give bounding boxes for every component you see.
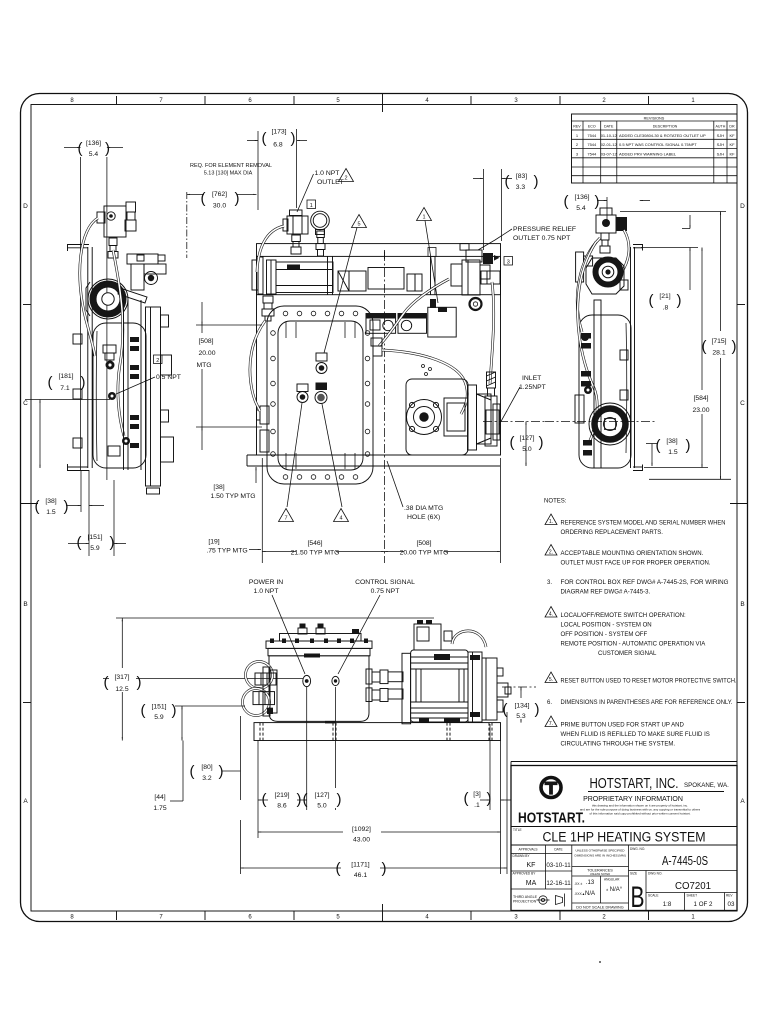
- dimension [151] 5.9 front view: [141, 700, 246, 741]
- svg-text:TITLE: TITLE: [513, 828, 522, 832]
- svg-text:5.4: 5.4: [576, 205, 586, 212]
- hotstart logo: [541, 778, 561, 798]
- svg-text:THIRD ANGLE: THIRD ANGLE: [513, 895, 538, 899]
- svg-text:): ): [337, 791, 342, 808]
- third angle projection symbol: [537, 894, 565, 907]
- svg-text:[508]: [508]: [198, 338, 213, 345]
- dimension [219] 8.6: [258, 788, 307, 810]
- dimension [19] .75 TYP MTG center: [206, 539, 261, 555]
- control box body: [269, 656, 369, 722]
- svg-text:01-10-12: 01-10-12: [601, 133, 618, 138]
- svg-text:DIMENSIONS ARE IN INCHES [MM]: DIMENSIONS ARE IN INCHES [MM]: [575, 854, 626, 858]
- svg-text:): ): [686, 437, 691, 454]
- svg-text:0.75 NPT: 0.75 NPT: [371, 588, 400, 595]
- svg-text:WHEN FLUID IS REFILLED TO MAKE: WHEN FLUID IS REFILLED TO MAKE SURE FLUI…: [561, 732, 710, 738]
- svg-text:A: A: [740, 798, 745, 805]
- svg-text:SPOKANE, WA.: SPOKANE, WA.: [684, 782, 729, 789]
- svg-text:KF: KF: [729, 151, 735, 156]
- svg-text:7544: 7544: [587, 151, 597, 156]
- dimension [38] 1.5 left view: [35, 470, 115, 556]
- svg-text:PROPRIETARY INFORMATION: PROPRIETARY INFORMATION: [583, 796, 683, 803]
- svg-text:KF: KF: [729, 142, 735, 147]
- svg-text:1.75: 1.75: [153, 805, 166, 812]
- box port power: [303, 675, 311, 686]
- leader balloon 5: [324, 228, 357, 354]
- sheet outer border: [21, 94, 748, 922]
- svg-text:3.: 3.: [547, 580, 552, 586]
- balloon triangle 5: [352, 215, 367, 228]
- balloon triangle 4: [334, 509, 349, 522]
- svg-text:PROJECTION: PROJECTION: [513, 900, 537, 904]
- outlet fitting assembly top: [283, 210, 329, 256]
- svg-text:[173]: [173]: [271, 129, 286, 136]
- svg-text:.75 TYP MTG: .75 TYP MTG: [206, 548, 247, 555]
- right view ports: [581, 333, 589, 341]
- note 7 balloon: [545, 716, 557, 727]
- svg-text:UNLESS NOTED: UNLESS NOTED: [590, 872, 610, 876]
- dimension [584] 23.00 right view: [644, 248, 710, 468]
- svg-text:DATE: DATE: [554, 848, 562, 852]
- dimension [151] 5.9 left view: [68, 534, 126, 552]
- svg-text:POWER IN: POWER IN: [249, 579, 283, 586]
- pressure relief fitting assembly: [451, 244, 500, 295]
- lid bolts: [270, 639, 368, 658]
- svg-text:PRIME BUTTON USED FOR START UP: PRIME BUTTON USED FOR START UP AND: [561, 723, 685, 729]
- svg-text:): ): [595, 193, 600, 210]
- motor body front view: [411, 650, 480, 722]
- svg-text:5.4: 5.4: [89, 151, 99, 158]
- svg-text:NOTES:: NOTES:: [544, 499, 567, 505]
- svg-text:20.00 TYP MTG: 20.00 TYP MTG: [400, 550, 449, 557]
- left hose loop 1: [246, 662, 273, 689]
- svg-text:1: 1: [310, 203, 313, 209]
- top valve assembly left view: [97, 202, 136, 258]
- plate right port: [371, 338, 382, 356]
- hose from outlet fitting: [257, 226, 284, 272]
- mtg hole extension lines bottom: [261, 458, 263, 563]
- svg-text:[1171]: [1171]: [351, 862, 370, 869]
- svg-text:INLET: INLET: [522, 375, 541, 382]
- svg-text:): ): [732, 338, 737, 355]
- svg-text:): ): [534, 173, 539, 190]
- svg-text:5: 5: [357, 222, 360, 228]
- motor mount arm left view: [118, 254, 166, 303]
- left column couplers center view: [257, 296, 275, 452]
- svg-text:REMOTE POSITION - AUTOMATIC OP: REMOTE POSITION - AUTOMATIC OPERATION VI…: [561, 642, 707, 648]
- svg-text:(: (: [262, 130, 267, 147]
- plate port fitting 1 (prime): [316, 353, 327, 374]
- dimension [134] 5.3: [502, 687, 540, 723]
- svg-text:5.: 5.: [549, 677, 553, 683]
- svg-text:7.1: 7.1: [60, 385, 70, 392]
- svg-text:TOLERANCES: TOLERANCES: [587, 869, 613, 873]
- svg-text:REVISIONS: REVISIONS: [644, 117, 665, 121]
- svg-text:): ): [297, 791, 302, 808]
- dimension [80] 3.2 front view: [190, 716, 241, 800]
- control box lid fittings: [298, 624, 359, 635]
- svg-text:[508]: [508]: [416, 540, 431, 547]
- zone tick marks top: [117, 94, 649, 113]
- svg-text:DESCRIPTION: DESCRIPTION: [653, 125, 678, 129]
- svg-text:(: (: [201, 190, 206, 207]
- dimension [181] 7.1 left view: [25, 373, 110, 468]
- svg-text:B: B: [631, 881, 645, 914]
- inlet centerline: [483, 421, 545, 423]
- balloon square 1: [307, 200, 316, 209]
- svg-text:N/A°: N/A°: [610, 887, 623, 893]
- dimension [762] 30.0: [187, 190, 257, 258]
- svg-text:LOCAL/OFF/REMOTE SWITCH OPERAT: LOCAL/OFF/REMOTE SWITCH OPERATION:: [561, 613, 687, 619]
- svg-text:KF: KF: [527, 862, 536, 869]
- svg-text:B: B: [23, 601, 27, 608]
- svg-text:1:8: 1:8: [663, 901, 672, 908]
- motor terminal box front view: [414, 620, 452, 650]
- svg-text:(: (: [190, 763, 195, 780]
- leader inlet: [499, 387, 520, 425]
- right view tank: [579, 315, 631, 468]
- dimension [508] 20.00 TYP MTG: [385, 536, 501, 557]
- zone tick marks bottom: [117, 904, 649, 922]
- svg-text:DO NOT SCALE DRAWING: DO NOT SCALE DRAWING: [576, 906, 624, 910]
- band left bracket: [252, 257, 276, 294]
- svg-text:(: (: [48, 374, 53, 391]
- svg-text:RESET BUTTON USED TO RESET MOT: RESET BUTTON USED TO RESET MOTOR PROTECT…: [561, 679, 737, 685]
- svg-text:SCALE: SCALE: [648, 894, 658, 898]
- svg-text:6.: 6.: [547, 700, 552, 706]
- svg-text:MTG: MTG: [196, 362, 211, 369]
- svg-text:[762]: [762]: [212, 191, 227, 198]
- svg-text:1.0 NPT: 1.0 NPT: [254, 588, 279, 595]
- bottom dim extension lines: [241, 687, 508, 874]
- svg-text:.1: .1: [474, 802, 480, 809]
- motor assembly center view: [406, 379, 499, 455]
- svg-text:CLE 1HP HEATING SYSTEM: CLE 1HP HEATING SYSTEM: [543, 830, 706, 845]
- svg-text:(: (: [104, 674, 109, 691]
- cover plate outer: [267, 306, 373, 484]
- balloon 2 left view: [154, 355, 163, 364]
- svg-text:): ): [677, 292, 682, 309]
- motor hose arc front view: [452, 631, 486, 647]
- svg-text:1: 1: [422, 215, 425, 221]
- sheet inner border: [31, 105, 737, 912]
- svg-text:(: (: [78, 140, 83, 157]
- tank body left view: [93, 323, 146, 468]
- svg-text:(: (: [77, 534, 82, 551]
- plate port fitting 3 (switch): [315, 383, 327, 404]
- svg-text:C: C: [740, 400, 745, 407]
- svg-text:PRESSURE RELIEF: PRESSURE RELIEF: [513, 226, 576, 233]
- leader power in: [272, 595, 305, 674]
- dimension [44] 1.75 front view: [153, 741, 183, 813]
- svg-text:A: A: [23, 798, 28, 805]
- svg-text:): ): [535, 701, 540, 718]
- svg-text:HOLE (6X): HOLE (6X): [407, 514, 440, 521]
- right view hoses: [577, 238, 600, 332]
- bolt strip left view: [124, 300, 142, 470]
- zone numbers top: [70, 98, 695, 104]
- svg-text:[83]: [83]: [516, 173, 527, 180]
- svg-text:REV: REV: [573, 125, 581, 129]
- svg-text:): ): [291, 130, 296, 147]
- svg-text:LOCAL POSITION - SYSTEM ON: LOCAL POSITION - SYSTEM ON: [561, 623, 652, 629]
- svg-text:[715]: [715]: [711, 338, 726, 345]
- svg-text:OUTLET MUST FACE UP FOR PROPER: OUTLET MUST FACE UP FOR PROPER OPERATION…: [561, 561, 711, 567]
- dimension [83] 3.3: [473, 169, 539, 250]
- svg-text:.13: .13: [586, 880, 595, 886]
- svg-text:[584]: [584]: [693, 395, 708, 402]
- svg-text:[317]: [317]: [114, 674, 129, 681]
- svg-text:of this information said copy: of this information said copy prohibited…: [589, 812, 690, 816]
- leader balloon 1: [425, 221, 438, 304]
- svg-text:.XXX▲: .XXX▲: [574, 892, 585, 896]
- svg-text:[80]: [80]: [201, 764, 212, 771]
- svg-text:DIAGRAM REF DWG# A-7445-3.: DIAGRAM REF DWG# A-7445-3.: [561, 590, 651, 596]
- svg-text:B: B: [740, 601, 744, 608]
- right view plate: [631, 245, 643, 471]
- svg-text:[38]: [38]: [45, 498, 56, 505]
- svg-text:3.3: 3.3: [516, 184, 526, 191]
- cover plate slots: [286, 322, 355, 469]
- centerline to inlet: [545, 421, 656, 423]
- svg-text:5.9: 5.9: [154, 714, 164, 721]
- svg-text:ECO: ECO: [588, 125, 596, 129]
- dimension [127] 5.0 bottom: [303, 788, 342, 810]
- svg-text:.38 DIA MTG: .38 DIA MTG: [404, 505, 443, 512]
- left hose loop 2: [243, 689, 270, 716]
- balloon triangle 2: [339, 169, 354, 182]
- port 0.5 NPT left view: [108, 392, 116, 400]
- svg-text:30.0: 30.0: [213, 203, 226, 210]
- motor vent dots: [422, 365, 425, 368]
- svg-text:OUTLET 0.75 NPT: OUTLET 0.75 NPT: [513, 235, 570, 242]
- svg-text:[127]: [127]: [314, 792, 329, 799]
- svg-text:): ): [137, 674, 142, 691]
- zone letters left: [23, 203, 28, 805]
- revision table: [572, 114, 738, 183]
- svg-text:7.: 7.: [549, 721, 553, 727]
- svg-text:DR: DR: [729, 125, 735, 129]
- control box lid: [266, 634, 372, 656]
- svg-text:7544: 7544: [587, 142, 597, 147]
- svg-text:CO7201: CO7201: [675, 880, 711, 892]
- svg-text:1.5: 1.5: [46, 509, 56, 516]
- svg-text:12.5: 12.5: [115, 686, 128, 693]
- right view left bracket: [576, 252, 593, 282]
- pump left view: [86, 279, 128, 319]
- leader balloon 4: [322, 404, 342, 507]
- svg-text:): ): [105, 140, 110, 157]
- cover plate inner: [278, 321, 363, 470]
- svg-text:1 OF 2: 1 OF 2: [694, 901, 713, 908]
- instrument boxes center view: [366, 314, 427, 334]
- svg-text:): ): [110, 534, 115, 551]
- svg-text:SJH: SJH: [717, 133, 725, 138]
- vertical hose to inlet: [490, 282, 494, 384]
- base plate lines: [247, 454, 501, 456]
- dimension [546] 21.50 TYP MTG: [262, 536, 384, 557]
- lower fitting left view: [122, 437, 130, 445]
- svg-text:5.0: 5.0: [317, 803, 327, 810]
- hose left column center view: [250, 321, 265, 411]
- svg-text:): ): [539, 434, 544, 451]
- svg-text:8.6: 8.6: [277, 803, 287, 810]
- junction box center view: [428, 307, 456, 337]
- svg-text:): ): [172, 702, 177, 719]
- left flange stack front view: [253, 667, 277, 716]
- svg-text:(: (: [510, 434, 515, 451]
- svg-text:[219]: [219]: [274, 792, 289, 799]
- top datum line: [116, 617, 434, 619]
- svg-text:(: (: [503, 701, 508, 718]
- zone numbers bottom: [70, 915, 695, 921]
- svg-text:ACCEPTABLE MOUNTING ORIENTATIO: ACCEPTABLE MOUNTING ORIENTATION SHOWN.: [561, 551, 704, 557]
- svg-text:ADDED CLE30804-30 & ROTATED OU: ADDED CLE30804-30 & ROTATED OUTLET UP: [619, 133, 706, 138]
- svg-text:4: 4: [339, 516, 342, 522]
- svg-text:[38]: [38]: [666, 438, 677, 445]
- hose PRV to plate port: [379, 279, 449, 346]
- svg-text:DWG. NO.: DWG. NO.: [630, 847, 645, 851]
- svg-text:DIMENSIONS IN PARENTHESES ARE: DIMENSIONS IN PARENTHESES ARE FOR REFERE…: [561, 700, 733, 706]
- right view upper pump: [586, 258, 624, 294]
- zone letters right: [740, 203, 745, 805]
- svg-text:4.: 4.: [549, 612, 553, 618]
- right view top fitting: [596, 208, 627, 253]
- svg-text:5.0: 5.0: [522, 446, 532, 453]
- svg-text:[181]: [181]: [58, 373, 73, 380]
- svg-text:[38]: [38]: [213, 484, 224, 491]
- svg-text:03-10-11: 03-10-11: [546, 862, 571, 869]
- svg-text:SHEET: SHEET: [687, 894, 698, 898]
- svg-text:[134]: [134]: [514, 703, 529, 710]
- dimension [38] 1.5 right view: [646, 437, 691, 466]
- svg-text:1.: 1.: [549, 519, 553, 525]
- svg-text:5.3: 5.3: [516, 713, 526, 720]
- svg-text:03: 03: [728, 901, 735, 908]
- cover plate holes: [271, 311, 370, 479]
- svg-text:HOTSTART.: HOTSTART.: [518, 811, 585, 827]
- balloon triangle 7: [279, 509, 294, 522]
- svg-text:[3]: [3]: [473, 791, 481, 798]
- svg-text:FOR CONTROL BOX REF DWG# A-74: FOR CONTROL BOX REF DWG# A-7445-2S, FOR …: [561, 580, 729, 586]
- notes block: [544, 499, 737, 748]
- inlet braid coupling: [485, 372, 500, 446]
- dimension [21] .8 right view: [641, 215, 698, 312]
- pressure gauge center view: [470, 298, 482, 310]
- svg-text:D: D: [23, 203, 28, 210]
- svg-text:[151]: [151]: [151, 704, 166, 711]
- dimension [127] 5.0 right: [510, 422, 544, 467]
- svg-text:SJH: SJH: [717, 151, 725, 156]
- svg-text:UNLESS OTHERWISE SPECIFIED: UNLESS OTHERWISE SPECIFIED: [575, 849, 625, 853]
- hose plate port to motor: [382, 350, 467, 414]
- box port signal: [332, 676, 339, 685]
- balloon square 3: [504, 257, 513, 266]
- port centerline extension: [103, 678, 303, 680]
- dimension [136] 5.4 right view: [564, 193, 651, 244]
- svg-text:APPROVED BY: APPROVED BY: [513, 872, 537, 876]
- svg-text:1.25NPT: 1.25NPT: [519, 384, 546, 391]
- dimension [1171] 46.1: [241, 857, 508, 879]
- svg-text:(: (: [505, 173, 510, 190]
- leader outlet: [297, 174, 314, 212]
- svg-text:): ): [487, 790, 492, 807]
- svg-text:0.5 NPT: 0.5 NPT: [156, 374, 181, 381]
- mounting channel left view: [146, 307, 174, 494]
- svg-text:SJH: SJH: [717, 142, 725, 147]
- title block grid: [511, 845, 737, 911]
- svg-text:[546]: [546]: [307, 540, 322, 547]
- svg-text:1.0 NPT: 1.0 NPT: [315, 170, 340, 177]
- svg-text:REQ. FOR ELEMENT REMOVAL: REQ. FOR ELEMENT REMOVAL: [190, 163, 272, 169]
- svg-text:3.2: 3.2: [202, 775, 212, 782]
- note 2 balloon: [545, 545, 557, 556]
- dimension [3] .1: [464, 790, 512, 809]
- svg-text:12-16-11: 12-16-11: [546, 880, 571, 887]
- dimension [1092] 43.00: [258, 822, 501, 844]
- svg-text:[151]: [151]: [87, 534, 102, 541]
- svg-text:43.00: 43.00: [353, 837, 370, 844]
- heater cylinder: [276, 256, 333, 294]
- svg-text:1.50 TYP MTG: 1.50 TYP MTG: [210, 493, 255, 500]
- dimension [317] 12.5 front view: [104, 618, 142, 741]
- dimension [508] 20.00 MTG left: [194, 302, 262, 450]
- svg-text:3: 3: [507, 259, 510, 265]
- svg-text:23.00: 23.00: [692, 407, 709, 414]
- svg-text:7544: 7544: [587, 133, 597, 138]
- motor bracket front view: [402, 653, 411, 724]
- svg-text:(: (: [464, 790, 469, 807]
- svg-text:5.9: 5.9: [90, 545, 100, 552]
- svg-text:AUTH: AUTH: [716, 125, 726, 129]
- svg-text:KF: KF: [729, 133, 735, 138]
- svg-text:.8: .8: [663, 305, 669, 312]
- right view bolt strip: [581, 333, 592, 456]
- hose from valve left view: [80, 218, 98, 356]
- svg-text:20.00: 20.00: [198, 350, 215, 357]
- svg-text:2: 2: [344, 176, 347, 182]
- svg-text:1.5: 1.5: [668, 449, 678, 456]
- svg-text:OFF POSITION - SYSTEM OFF: OFF POSITION - SYSTEM OFF: [561, 632, 648, 638]
- svg-text:ADDED PRV WARNING LABEL: ADDED PRV WARNING LABEL: [619, 151, 677, 156]
- svg-text:ORDERING REPLACEMENT PARTS.: ORDERING REPLACEMENT PARTS.: [561, 530, 664, 536]
- svg-text:HOTSTART, INC.: HOTSTART, INC.: [590, 776, 679, 792]
- svg-text:): ): [81, 374, 86, 391]
- svg-text:OUTLET: OUTLET: [317, 179, 344, 186]
- svg-text:ANGULAR: ANGULAR: [604, 878, 620, 882]
- motor right stack front view: [468, 652, 511, 722]
- leader control signal: [338, 595, 380, 674]
- svg-text:[136]: [136]: [86, 140, 101, 147]
- zone tick marks sides: [21, 305, 748, 703]
- svg-text:[21]: [21]: [659, 293, 670, 300]
- svg-text:CIRCULATING THROUGH THE SYSTEM: CIRCULATING THROUGH THE SYSTEM.: [561, 742, 676, 748]
- svg-text:(: (: [35, 498, 40, 515]
- svg-text:C: C: [23, 400, 28, 407]
- svg-text:A-7445-0S: A-7445-0S: [662, 854, 708, 868]
- svg-text:(: (: [336, 860, 341, 877]
- pump outlet fittings left view: [103, 345, 116, 370]
- bracket plate left view: [68, 245, 93, 471]
- svg-text:DATE: DATE: [604, 125, 614, 129]
- vertical centerline: [384, 252, 386, 563]
- right pipes front view: [366, 669, 403, 702]
- svg-text:MA: MA: [526, 880, 537, 887]
- svg-text:[136]: [136]: [574, 194, 589, 201]
- note 5 balloon: [545, 672, 557, 683]
- leader balloon 7: [287, 403, 302, 507]
- note 4 balloon: [545, 607, 557, 618]
- svg-text:[1092]: [1092]: [352, 826, 371, 833]
